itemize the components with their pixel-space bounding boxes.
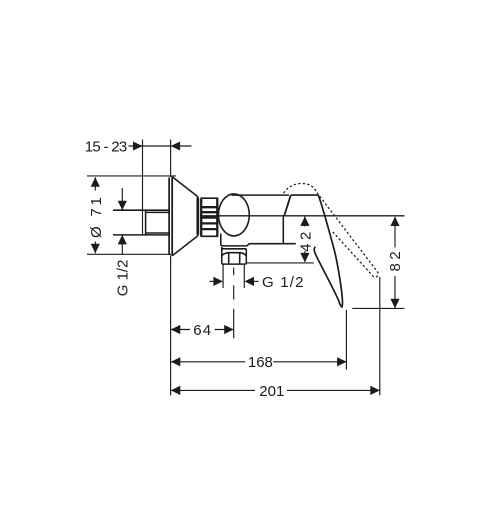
svg-text:G 1/2: G 1/2 [115,260,132,297]
svg-text:Ø 71: Ø 71 [88,194,105,238]
svg-text:G 1/2: G 1/2 [262,274,305,291]
svg-text:42: 42 [297,228,314,252]
svg-text:15 - 23: 15 - 23 [85,138,127,155]
svg-text:64: 64 [193,322,212,339]
svg-text:82: 82 [387,248,404,272]
svg-text:201: 201 [259,383,284,400]
svg-text:168: 168 [248,354,273,371]
